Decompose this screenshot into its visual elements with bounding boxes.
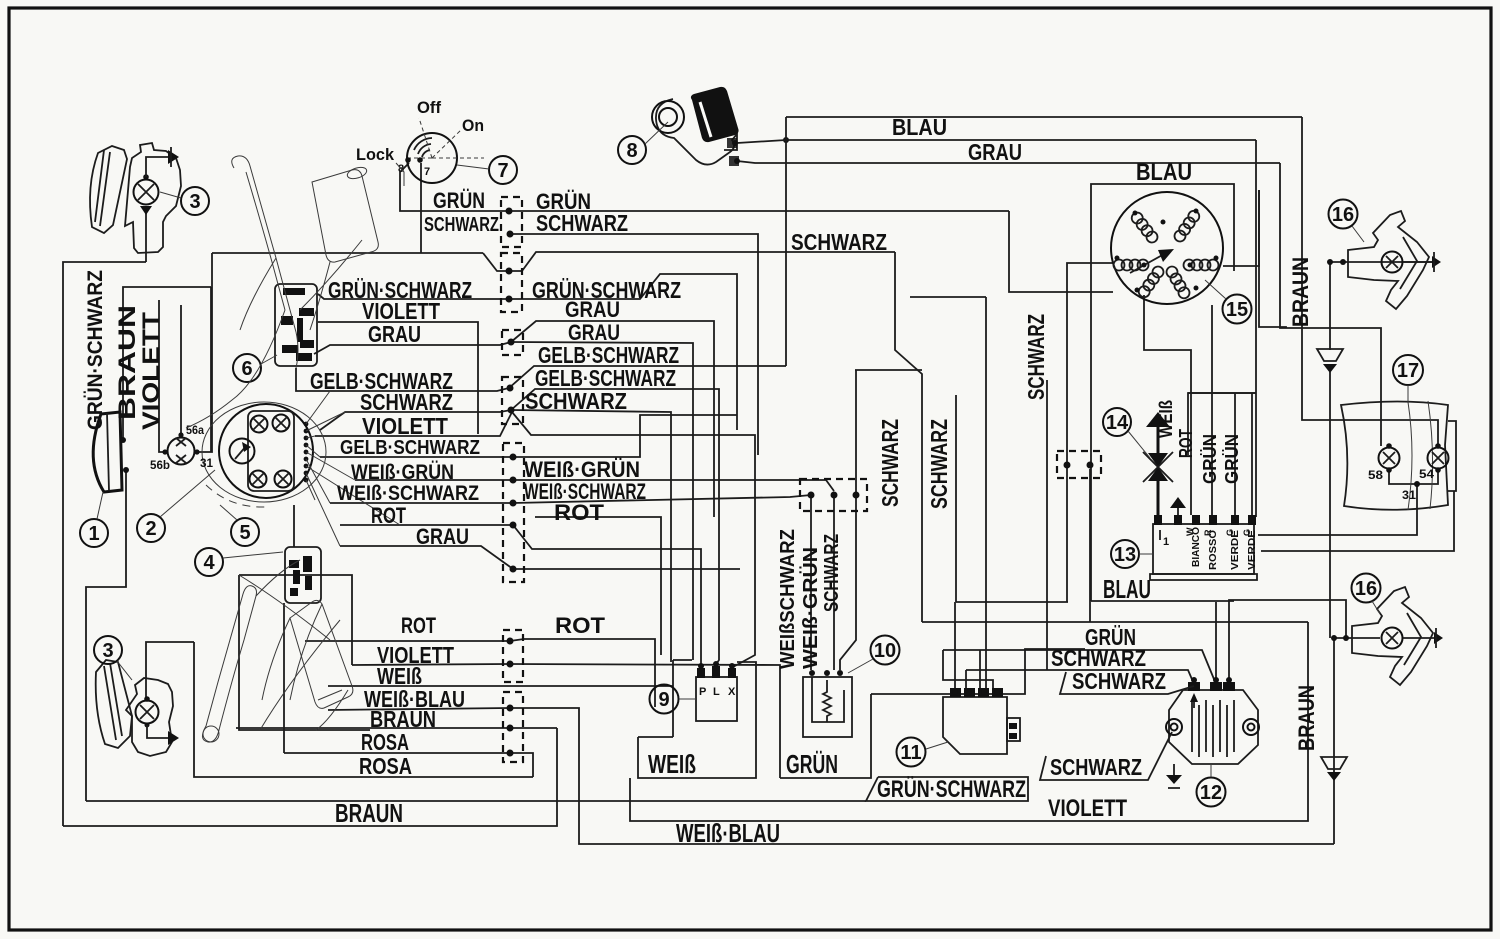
wire box lower right edge <box>239 575 352 665</box>
wire magneto lead 1 <box>1144 295 1191 515</box>
leader 6 <box>261 355 277 364</box>
wire WEISS box outline <box>638 662 756 778</box>
magneto arrow <box>1130 253 1166 273</box>
wire CDI riser x955 <box>954 602 956 688</box>
rear 16 bottom dots <box>1331 635 1337 641</box>
speedo gauge <box>230 439 255 464</box>
wire VIOLETT riser x1308 <box>1048 622 1308 821</box>
svg-text:14: 14 <box>1106 412 1129 434</box>
turn signal 3b lens hatch <box>104 663 122 740</box>
svg-text:54: 54 <box>1419 467 1434 481</box>
svg-text:Lock: Lock <box>356 145 395 164</box>
ignition switch arcs <box>414 138 432 150</box>
tail lamp 54 <box>1428 448 1449 469</box>
node right pin A <box>1064 462 1071 469</box>
wire rear16 top junction <box>1329 262 1331 350</box>
svg-text:1: 1 <box>88 523 99 545</box>
wire block13 tab riser A <box>1234 393 1236 515</box>
box around GRUEN-SCHWARZ bottom <box>866 777 1028 801</box>
wire x692 GRAU2 drop <box>692 655 694 660</box>
wire magneto lead 2 <box>1211 305 1213 515</box>
svg-text:GRÜN: GRÜN <box>1200 434 1220 484</box>
wire SCHWARZ down x895 to x922 <box>895 252 922 622</box>
lock leader <box>396 163 404 186</box>
wire ROT speedo y525 <box>340 524 513 526</box>
svg-text:ROT: ROT <box>401 613 436 638</box>
svg-text:31: 31 <box>200 456 213 470</box>
wire regulator top right y600 <box>1229 600 1346 684</box>
connector block4 dashed <box>502 377 523 424</box>
svg-text:GRAU: GRAU <box>416 524 469 549</box>
svg-text:G: G <box>1242 529 1252 536</box>
leader 7 <box>457 165 489 169</box>
turn signal 3b lens <box>96 660 132 748</box>
wire inner box bottom y602 <box>956 601 1068 603</box>
leader 3 <box>160 192 181 198</box>
circled 16 top <box>1329 200 1358 229</box>
wire GRUEN-SCHWARZ switch6 y300 <box>318 294 509 299</box>
svg-text:WEIß: WEIß <box>648 749 696 779</box>
connector right dashed <box>1057 451 1101 478</box>
block 13 pin1 <box>1159 530 1161 540</box>
svg-text:X: X <box>728 686 736 698</box>
lever art bottom grip <box>290 600 353 708</box>
wire SCHWARZ regulator y670 <box>966 670 1194 684</box>
flasher inner <box>812 677 844 722</box>
small arrow 13 <box>1170 497 1186 508</box>
circled 4 <box>195 548 223 576</box>
block 13 box <box>1153 524 1254 574</box>
block 13 tabs <box>1154 515 1256 525</box>
leader 5 <box>220 505 237 520</box>
zener 14 stem bottom <box>1157 481 1160 524</box>
turn signal 3b bottom terminal <box>145 723 150 728</box>
wire 31 from tail <box>1258 484 1417 535</box>
node GRUEN pin <box>506 208 513 215</box>
connector block7 dashed <box>503 692 523 762</box>
wire GRAU speedo y546 <box>340 546 513 569</box>
svg-text:ROT: ROT <box>1176 429 1196 458</box>
SEC-WIRES2 <box>501 197 1101 762</box>
wire SCHWARZ x856 <box>855 370 857 493</box>
leader 17 <box>1407 385 1409 403</box>
wire BLAU down x1302 <box>1302 117 1438 446</box>
regulator fins <box>1192 700 1234 757</box>
leader 12 <box>1210 764 1212 777</box>
regulator ground <box>1166 775 1182 784</box>
speedo inner panel <box>248 411 294 491</box>
headlamp 1 inner line <box>107 413 109 491</box>
wire VIOLETT switch6 y322 <box>318 322 478 434</box>
CDI 11 box <box>943 697 1007 754</box>
magneto 15 circle <box>1111 192 1223 304</box>
svg-text:ROT: ROT <box>371 503 406 528</box>
switch 4 contacts <box>289 556 312 596</box>
wire SCHWARZ right y412 <box>511 410 671 662</box>
svg-text:16: 16 <box>1332 204 1354 226</box>
headlight shell dashes <box>206 485 265 507</box>
wire ROSA2 y777 <box>194 642 533 777</box>
svg-text:7: 7 <box>497 160 508 182</box>
wire inner box left x968 <box>955 395 957 602</box>
svg-text:GRAU: GRAU <box>968 139 1022 165</box>
svg-text:SCHWARZ: SCHWARZ <box>821 534 843 612</box>
svg-text:ROSA: ROSA <box>361 729 409 755</box>
wire parking lamp 56a x183 <box>180 305 182 437</box>
wire ignition GRUEN y211 <box>400 163 1009 211</box>
tail light 17 housing <box>1341 402 1448 510</box>
tail light bracket <box>1448 421 1456 491</box>
svg-text:Off: Off <box>417 98 441 117</box>
turn signal 3 bulb <box>134 180 159 205</box>
block 13 base <box>1150 574 1257 580</box>
node WEISS-SCHWARZ pin <box>510 500 517 507</box>
svg-text:GRÜN: GRÜN <box>786 749 838 779</box>
wire BRAUN switch4 y728 <box>236 727 510 729</box>
wire y457 right <box>513 415 737 457</box>
svg-text:BRAUN: BRAUN <box>1294 685 1319 751</box>
wire GRAU down x1280 <box>1280 163 1381 446</box>
wire VIOLETT right y665 <box>510 664 780 778</box>
svg-text:13: 13 <box>1114 544 1136 566</box>
svg-text:SCHWARZ: SCHWARZ <box>525 388 627 414</box>
headlamp 1 terminals <box>120 437 126 443</box>
connector block6 dashed <box>503 630 523 682</box>
wire y660 PLX link <box>673 659 692 661</box>
svg-text:4: 4 <box>203 552 215 574</box>
svg-text:GRÜN: GRÜN <box>1222 434 1242 484</box>
wire GELB-SCHWARZ2 right y389 <box>511 389 719 666</box>
svg-text:10: 10 <box>874 640 896 662</box>
magneto coil top-right <box>1172 209 1201 244</box>
connector flasher dashed <box>800 479 867 511</box>
svg-text:SCHWARZ: SCHWARZ <box>536 210 628 236</box>
svg-text:SCHWARZ: SCHWARZ <box>926 419 952 509</box>
wire y297 stub <box>910 296 986 298</box>
svg-text:ROT: ROT <box>554 500 605 525</box>
wire bottom long y801 <box>86 800 866 802</box>
leader 1 <box>97 492 103 519</box>
wire switch4 riser x284 <box>283 603 285 753</box>
svg-text:GELB·SCHWARZ: GELB·SCHWARZ <box>340 437 480 459</box>
wire VIOLETT switch4 y665 <box>352 664 510 665</box>
wire flasher drop A <box>810 497 812 670</box>
wire SCHWARZ jog into connector <box>483 252 895 271</box>
svg-text:17: 17 <box>1397 360 1419 382</box>
svg-text:5: 5 <box>239 522 250 544</box>
node GRAU pin <box>508 339 515 346</box>
wire GRAU2 right y343 to x693 <box>511 342 693 655</box>
circled 11 <box>897 738 926 767</box>
node SCHWARZ pin <box>507 231 514 238</box>
speedo lamp BR <box>275 471 292 488</box>
zener 14 stem top <box>1157 427 1160 453</box>
svg-text:11: 11 <box>900 742 921 764</box>
svg-text:BLAU: BLAU <box>1136 159 1192 186</box>
ignition switch 7 <box>407 133 457 183</box>
leader 10 <box>848 659 873 673</box>
zener 14 bowtie <box>1148 453 1168 481</box>
switch 6 contacts <box>281 288 314 361</box>
wire VIOLETT speedo y436 <box>315 412 512 436</box>
svg-text:G: G <box>1225 529 1235 536</box>
circled 9 <box>650 685 679 714</box>
node ROT2 pin <box>507 638 514 645</box>
svg-text:VIOLETT: VIOLETT <box>1048 795 1127 822</box>
headlight shell outline <box>202 402 326 502</box>
horn 8 bracket <box>652 101 684 133</box>
horn 8 black cap <box>691 87 739 142</box>
wire ROT right y639 <box>510 639 655 707</box>
node SCHWARZ pin3 <box>508 407 515 414</box>
svg-text:WEIßSCHWARZ: WEIßSCHWARZ <box>777 529 799 669</box>
circled 17 <box>1393 355 1423 385</box>
horn 8 body <box>656 99 737 165</box>
wire ROT switch4 y641 <box>305 640 510 642</box>
wire VIOLETT right y435 to PLX X <box>512 412 755 667</box>
circled 2 <box>137 514 165 542</box>
rear 16 top lens line <box>1400 237 1417 289</box>
svg-text:GRÜN·SCHWARZ: GRÜN·SCHWARZ <box>84 270 107 430</box>
wire SCHWARZ top y253 <box>212 252 483 254</box>
wire headlamp ground x86 <box>86 470 126 801</box>
speedo gauge needle <box>235 445 247 459</box>
wire magneto box bottom <box>1091 600 1234 602</box>
leader 9 <box>679 698 696 700</box>
wire horn mid y140 <box>737 140 1256 143</box>
circled 7 <box>489 156 517 184</box>
node WEISS-GRUEN pin <box>510 477 517 484</box>
wire BRAUN bottom long y826 <box>63 728 557 826</box>
magneto coil bottom-left <box>1137 264 1166 299</box>
CDI terminals <box>950 688 1003 697</box>
wire y393 to WEISS arrow <box>1188 393 1256 455</box>
wire x673 riser <box>672 660 674 737</box>
parking lamp <box>168 438 195 465</box>
wire flasher drop C <box>840 497 856 670</box>
wire tail 31 link <box>1389 470 1438 484</box>
wire parking lamp 56b x160 <box>159 300 163 452</box>
lever art top grip <box>312 170 378 263</box>
horn terminals <box>732 140 738 146</box>
speedo lamp TR <box>273 415 290 432</box>
wire SCHWARZ right y234 <box>511 234 758 455</box>
turn signal lamp 3 front-left housing <box>125 143 181 253</box>
flasher resistor <box>823 680 831 722</box>
flasher terminals <box>809 670 815 676</box>
wire ROSA y753 <box>284 752 510 754</box>
regulator 12 body <box>1169 690 1258 764</box>
node GELB-SCHWARZ2 pin <box>510 454 517 461</box>
turn signal 3 ground arrow <box>146 157 168 177</box>
svg-text:6: 6 <box>241 358 252 380</box>
zener 14 rays <box>1143 452 1173 482</box>
wire parking lamp 31 to x212 <box>198 253 212 452</box>
regulator arrow <box>1190 693 1198 702</box>
leader 16 top <box>1352 226 1364 242</box>
wire BRAUN rear riser x1333 <box>1333 638 1335 844</box>
svg-text:BRAUN: BRAUN <box>335 798 403 828</box>
node horn junction <box>783 137 789 143</box>
svg-text:BLAU: BLAU <box>892 114 947 140</box>
leader 2 <box>160 470 215 517</box>
wire y551 bracket <box>1261 491 1454 551</box>
parking lamp X marks <box>176 438 186 463</box>
speedo lamp TL <box>251 416 268 433</box>
wire y517 bundle <box>535 517 661 655</box>
wire headlamp feed x123 <box>123 287 211 440</box>
magneto coil right <box>1184 260 1219 271</box>
box SCHWARZ regulator3 <box>1040 732 1172 780</box>
wire rear16 top lamp line <box>1330 261 1438 263</box>
turn signal 3b ground arrow <box>147 725 168 738</box>
wire GRUEN down x1009 to magneto <box>1009 211 1113 292</box>
wire GRUEN loop to CDI <box>943 650 993 688</box>
svg-text:ROSA: ROSA <box>359 753 412 779</box>
lever art bottom cables <box>256 560 348 730</box>
node GELB-SCHWARZ pin <box>507 385 514 392</box>
lever art top blade <box>232 156 296 332</box>
wire left GRUEN-SCHWARZ vertical x63 <box>63 262 146 826</box>
flasher 10 box <box>803 677 852 737</box>
circled 15 <box>1223 295 1252 324</box>
svg-text:GRÜN: GRÜN <box>433 188 485 213</box>
svg-text:58: 58 <box>1368 468 1383 482</box>
regulator terminals <box>1188 682 1235 691</box>
wire turnsignal3 stem <box>145 212 147 262</box>
svg-text:1: 1 <box>1163 536 1169 548</box>
node ROT pin <box>510 522 517 529</box>
svg-text:BLAU: BLAU <box>1103 574 1151 604</box>
svg-text:3: 3 <box>189 191 200 213</box>
wire y393 top of block13 <box>1188 392 1256 394</box>
node SCHWARZ pin2 <box>506 268 513 275</box>
ignition dashed pointers <box>419 118 432 158</box>
node BRAUN pin <box>507 725 514 732</box>
node flasher pin C <box>853 492 860 499</box>
leader 15 <box>1205 280 1226 299</box>
regulator ears <box>1166 719 1182 735</box>
rear 16 bottom lens line <box>1404 613 1421 665</box>
svg-text:31: 31 <box>1402 488 1416 502</box>
wire turnsignal3b stem <box>145 694 147 699</box>
circled 13 <box>1111 540 1139 568</box>
switch 6 block <box>275 284 317 366</box>
wire GRAU right y321 to x714 <box>511 321 714 517</box>
turn signal 3b top terminal <box>144 696 150 702</box>
svg-text:ROT: ROT <box>555 613 606 638</box>
svg-text:BRAUN: BRAUN <box>114 305 141 420</box>
turn signal 3 top terminal <box>143 174 149 180</box>
svg-text:9: 9 <box>658 689 669 711</box>
speedo cluster circle 5 <box>219 404 313 498</box>
node ROSA pin <box>507 750 514 757</box>
wire box lower levers <box>239 575 370 730</box>
rear 16 top bulb <box>1382 252 1403 273</box>
turn signal 3 lens hatch <box>95 150 110 226</box>
turn signal 3b bulb <box>136 701 159 724</box>
magneto coil left <box>1114 260 1149 271</box>
leader 16 bottom <box>1372 601 1380 614</box>
wire y370 bundle top <box>855 369 922 371</box>
svg-text:SCHWARZ: SCHWARZ <box>1072 668 1166 694</box>
wire GRUEN-SCHWARZ right to x737 <box>509 274 737 430</box>
circled 6 <box>233 354 261 382</box>
svg-text:WEIß·SCHWARZ: WEIß·SCHWARZ <box>337 482 479 505</box>
wire SCHWARZ x986 to CDI <box>985 297 987 688</box>
circled 12 <box>1197 778 1226 807</box>
wire WEISS-GRUEN right y480 <box>513 480 834 491</box>
wire ROT right y549 <box>513 525 701 664</box>
turn signal 3 bulb X <box>138 184 154 200</box>
leader 4 <box>223 552 283 558</box>
wire SCHWARZ speedo y412 <box>320 410 511 430</box>
wire mid down x1256 <box>1255 140 1257 517</box>
svg-text:SCHWARZ: SCHWARZ <box>360 389 453 415</box>
svg-text:SCHWARZ: SCHWARZ <box>877 419 903 507</box>
wire WEISS-BLAU right to bottom <box>510 708 1334 844</box>
leader 13 <box>1139 553 1153 555</box>
wire WEISS box step <box>638 736 673 738</box>
diode bottom right <box>1321 757 1347 769</box>
wire BLAU riser x786 <box>785 117 787 366</box>
leader 14 <box>1128 431 1150 458</box>
wire ignition SCHWARZ x422 <box>420 163 422 253</box>
circled 8 <box>618 136 646 164</box>
wire magneto lead right <box>1223 190 1259 266</box>
wire CDI riser x980 <box>979 650 981 688</box>
svg-text:GRAU: GRAU <box>368 321 421 347</box>
node flasher pin B <box>831 492 838 499</box>
wire VIOLETT long bottom y623 <box>922 621 1308 623</box>
svg-text:GRAU: GRAU <box>565 297 620 322</box>
svg-text:12: 12 <box>1200 782 1222 804</box>
svg-text:3: 3 <box>102 640 113 662</box>
node GRAU2 pin <box>510 566 517 573</box>
svg-text:16: 16 <box>1355 578 1377 600</box>
PLX connector 9 <box>696 677 737 721</box>
circled 14 <box>1103 408 1131 436</box>
rear signal 16 top housing <box>1348 211 1429 309</box>
svg-text:BRAUN: BRAUN <box>1288 257 1313 327</box>
svg-text:VIOLETT: VIOLETT <box>362 413 448 439</box>
wire WEISS-GRUEN speedo y480 <box>355 479 513 481</box>
wire rear16 bottom junction <box>1334 637 1380 639</box>
leader 3b <box>117 661 132 680</box>
wire GELB-SCHWARZ right y366 to x786 <box>509 366 786 388</box>
speedo fan wires <box>306 391 400 546</box>
circled 16 bottom <box>1352 574 1381 603</box>
wire SCHWARZ CDI riser <box>965 670 967 688</box>
box SCHWARZ regulator2 <box>1060 672 1194 694</box>
magneto coil top-left <box>1130 210 1160 244</box>
wire magneto to x1286 <box>1259 190 1286 328</box>
svg-text:SCHWARZ: SCHWARZ <box>1050 754 1142 780</box>
lever art bottom blade <box>202 586 256 742</box>
node GRUEN-SCHWARZ pin <box>506 296 513 303</box>
turn signal 3 lens <box>90 146 127 233</box>
svg-text:R: R <box>1203 529 1213 536</box>
circled 3 <box>181 187 209 215</box>
wire flasher drop B <box>833 497 835 670</box>
wire GELB-SCHWARZ switch6 y391 <box>296 368 509 391</box>
wire GRUEN regulator y650 <box>943 650 1216 684</box>
tail lamp 58 <box>1379 448 1400 469</box>
ignition pins <box>405 157 411 163</box>
svg-text:VIOLETT: VIOLETT <box>138 312 165 430</box>
wire WEISS-BLAU switch4 y710 <box>328 708 510 710</box>
svg-text:2: 2 <box>145 518 156 540</box>
